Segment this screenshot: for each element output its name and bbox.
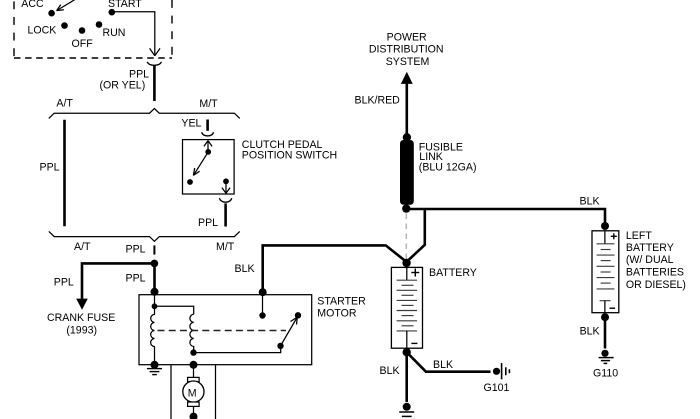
clutch switch lever with arrow — [193, 152, 208, 176]
svg-text:LEFT: LEFT — [626, 230, 652, 242]
ground junction dot of hold-in coil — [151, 361, 159, 369]
wire BLK battery cable to starter — [263, 245, 407, 292]
svg-text:OR DIESEL): OR DIESEL) — [626, 279, 686, 291]
wire BLK left battery to ground — [604, 317, 607, 348]
wire from START contact to connector — [115, 12, 155, 55]
svg-text:(1993): (1993) — [66, 325, 97, 337]
solenoid plunger dashed linkage — [158, 330, 287, 332]
svg-text:PPL: PPL — [40, 161, 60, 173]
junction dot PPL node — [151, 260, 159, 268]
wire PPL A/T branch down left — [63, 120, 66, 226]
left battery top junction dot — [601, 222, 609, 230]
male connector arrow into C-connector — [150, 48, 160, 55]
wire BLK to G101 — [407, 352, 491, 372]
hold-in coil L1 — [151, 306, 155, 364]
left battery plus sign — [611, 233, 617, 239]
wire branch down to battery positive — [407, 209, 425, 262]
solenoid fixed contact dot upper — [295, 312, 301, 318]
svg-text:BLK/RED: BLK/RED — [355, 95, 401, 107]
clutch switch output contact dot — [223, 178, 229, 184]
pull-in coil L2 — [190, 314, 194, 352]
clutch switch input arrow — [204, 141, 212, 152]
svg-text:START: START — [108, 0, 142, 10]
svg-text:DISTRIBUTION: DISTRIBUTION — [369, 44, 444, 56]
svg-text:RUN: RUN — [103, 27, 126, 39]
svg-text:BLK: BLK — [580, 195, 600, 207]
battery minus sign — [411, 342, 417, 344]
junction dot above fusible link — [403, 133, 411, 141]
ignition switch wiper arrow — [57, 0, 78, 11]
svg-text:STARTER: STARTER — [317, 295, 366, 307]
wire to motor brush — [193, 365, 195, 378]
motor junction dot on box bottom — [190, 361, 198, 369]
svg-text:BATTERIES: BATTERIES — [626, 267, 684, 279]
ignition switch position dot OFF — [79, 27, 86, 34]
svg-text:M: M — [188, 387, 197, 399]
clutch switch output arrow — [222, 184, 230, 193]
starter motor M circle — [183, 381, 204, 402]
svg-text:YEL: YEL — [181, 118, 201, 130]
arrow to power distribution system — [401, 72, 413, 84]
crank fuse arrowhead — [76, 299, 88, 310]
svg-text:G110: G110 — [593, 367, 618, 379]
svg-text:BLK: BLK — [433, 359, 453, 371]
clutch switch lower-left contact dot — [187, 179, 193, 185]
battery feed contact dot — [259, 312, 265, 318]
battery plus sign — [411, 269, 419, 277]
svg-text:BLK: BLK — [380, 365, 400, 377]
svg-text:PPL: PPL — [126, 272, 146, 284]
merge bracket A/T / M/T (bottom) — [49, 231, 240, 241]
clutch switch movable contact dot — [205, 149, 211, 155]
junction dot at starter box entry — [151, 288, 159, 296]
dashed wire stub below merge bracket — [153, 245, 155, 254]
svg-text:G101: G101 — [484, 382, 510, 394]
solenoid contact pivot dot — [277, 343, 283, 349]
left battery box — [592, 231, 619, 313]
svg-text:BLK: BLK — [580, 325, 600, 337]
left frame wire below starter box — [170, 365, 172, 419]
wire YEL M/T branch to clutch switch — [206, 120, 209, 131]
ignition switch dashed housing box — [14, 0, 172, 58]
ignition switch position dot ACC — [48, 10, 55, 17]
wire BLK to left battery — [406, 209, 605, 223]
svg-text:PPL: PPL — [198, 217, 218, 229]
svg-text:(OR YEL): (OR YEL) — [100, 80, 146, 92]
svg-text:BLK: BLK — [235, 263, 255, 275]
wire below motor — [193, 406, 195, 415]
battery box — [391, 267, 422, 348]
svg-text:M/T: M/T — [199, 98, 218, 110]
wire to pull-in coil — [155, 306, 194, 314]
wire BLK battery negative to ground — [405, 352, 408, 402]
battery positive junction dot — [402, 259, 410, 267]
svg-text:PPL: PPL — [54, 276, 74, 288]
svg-text:M/T: M/T — [216, 241, 235, 253]
split bracket A/T / M/T (top) — [49, 109, 240, 119]
junction dot below fusible link — [402, 204, 410, 212]
svg-text:LOCK: LOCK — [28, 24, 57, 36]
wire to crank fuse — [82, 263, 155, 299]
clutch pedal position switch box — [183, 140, 235, 194]
svg-text:(BLU 12GA): (BLU 12GA) — [419, 162, 477, 174]
starter motor box — [139, 295, 312, 365]
motor brush upper — [188, 377, 200, 381]
svg-text:A/T: A/T — [56, 98, 73, 110]
left battery plates — [597, 244, 615, 301]
left battery negative junction dot — [601, 313, 609, 321]
svg-text:(W/ DUAL: (W/ DUAL — [626, 254, 674, 266]
solenoid coil junction dot — [152, 303, 158, 309]
svg-text:A/T: A/T — [74, 241, 91, 253]
wire into solenoid coils — [154, 295, 156, 306]
pull-in coil bottom junction dot — [190, 349, 196, 355]
ground symbol below battery — [399, 403, 414, 417]
left battery minus sign — [610, 307, 616, 309]
svg-text:BATTERY: BATTERY — [626, 242, 674, 254]
wire from coil to contact pivot — [194, 346, 281, 353]
wire PPL down to starter solenoid — [153, 263, 156, 295]
ground G101 symbol — [493, 363, 510, 379]
ground G110 symbol — [599, 350, 614, 364]
battery top stub — [406, 267, 408, 280]
left battery bottom stub — [604, 301, 606, 313]
svg-text:CRANK FUSE: CRANK FUSE — [47, 312, 115, 324]
svg-text:POSITION SWITCH: POSITION SWITCH — [242, 150, 337, 162]
junction dot BLK at starter box top — [259, 288, 267, 296]
motor brush lower — [188, 402, 200, 406]
svg-text:BATTERY: BATTERY — [429, 267, 477, 279]
left battery top stub — [604, 231, 606, 244]
battery negative junction dot — [403, 348, 411, 356]
female connector arc above clutch switch — [202, 132, 214, 136]
solenoid moving contact arm with arrow — [281, 317, 298, 346]
female connector arc below clutch switch — [219, 198, 231, 202]
battery bottom stub — [406, 331, 408, 348]
ignition switch position dot LOCK — [61, 22, 68, 29]
wire from box top to battery contact — [262, 295, 264, 313]
battery plates — [397, 280, 417, 331]
ignition switch position dot RUN — [96, 21, 103, 28]
svg-text:OFF: OFF — [72, 38, 94, 50]
svg-text:SYSTEM: SYSTEM — [386, 56, 430, 68]
wire PPL from clutch switch to merge bracket — [224, 203, 227, 226]
female connector arc below ignition switch — [147, 62, 161, 65]
wire PPL (OR YEL) from connector to split bracket — [153, 65, 156, 101]
junction dot below motor — [190, 413, 198, 419]
ground symbol inside starter — [147, 369, 162, 375]
svg-text:MOTOR: MOTOR — [317, 307, 357, 319]
svg-text:POWER: POWER — [387, 31, 427, 43]
ignition switch position dot START — [109, 9, 116, 16]
grey dashed link to battery positive — [405, 214, 407, 260]
fusible link body — [400, 140, 414, 205]
right frame wire below starter box — [215, 365, 217, 419]
wire BLK/RED — [405, 83, 408, 136]
svg-text:PPL: PPL — [126, 243, 146, 255]
svg-text:ACC: ACC — [21, 0, 44, 10]
